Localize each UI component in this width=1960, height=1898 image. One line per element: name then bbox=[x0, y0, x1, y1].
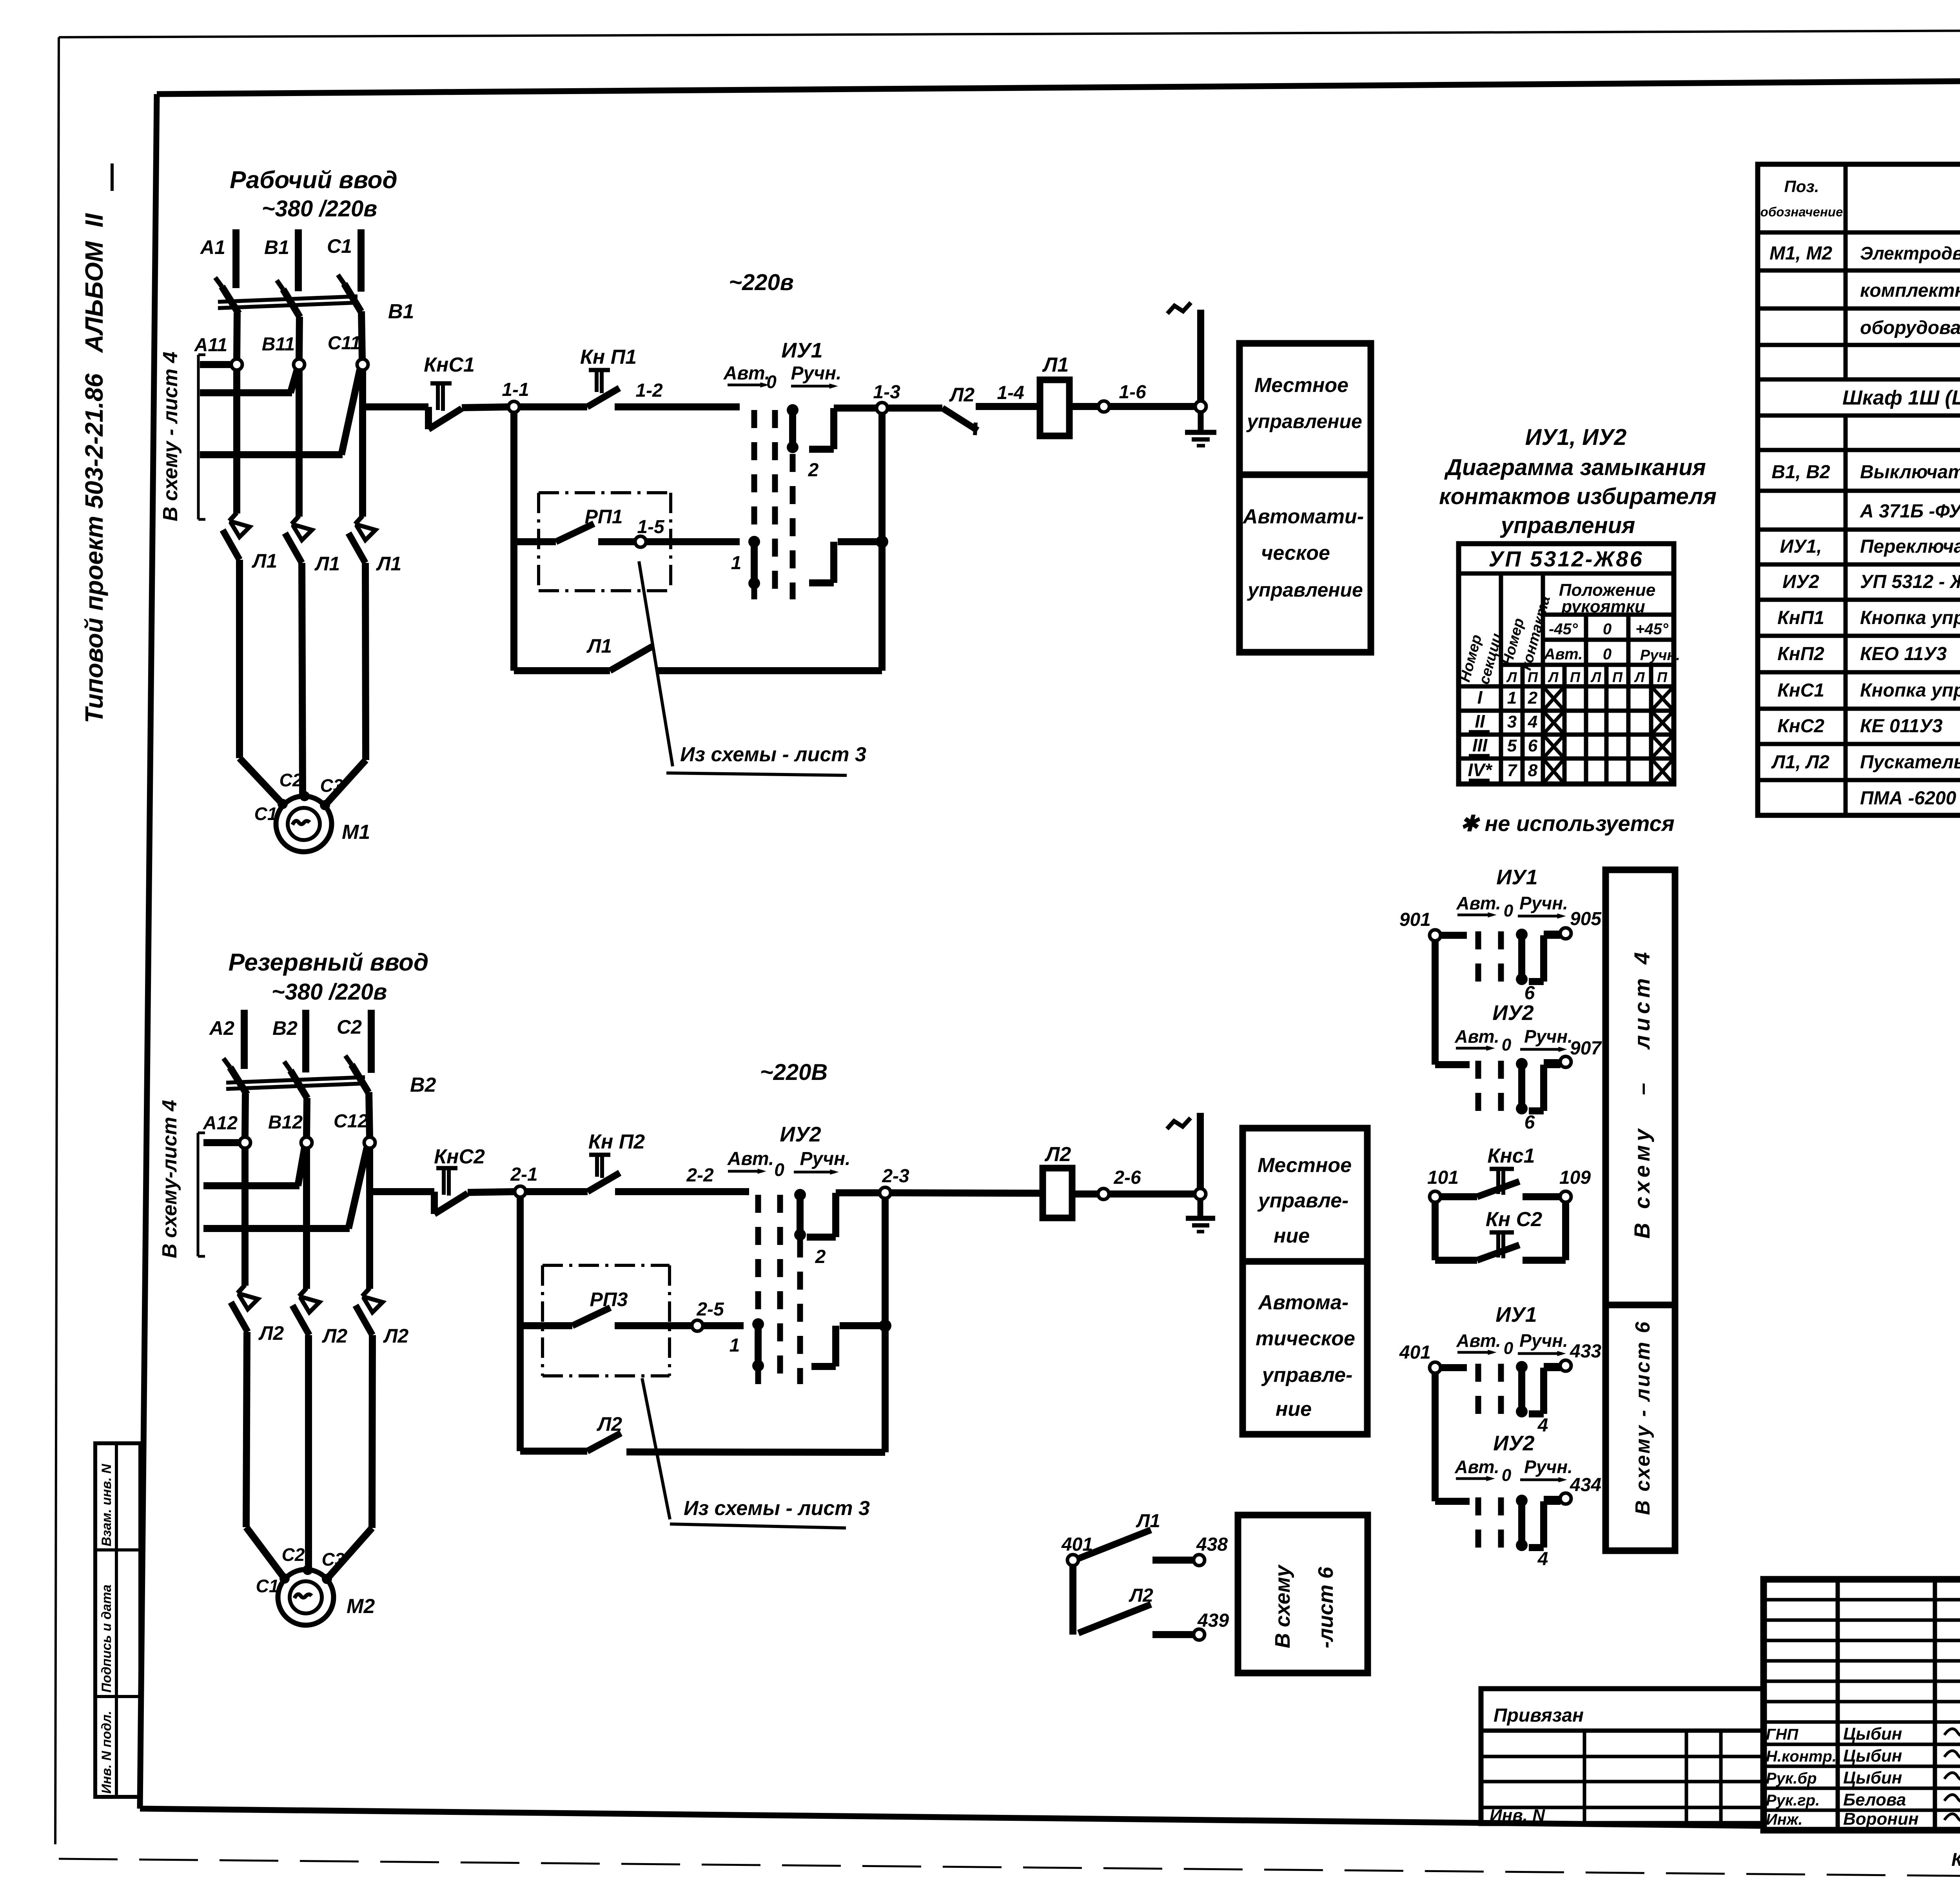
svg-text:901: 901 bbox=[1399, 909, 1431, 930]
svg-text:Инж.: Инж. bbox=[1766, 1811, 1803, 1828]
svg-text:2-2: 2-2 bbox=[686, 1165, 714, 1186]
box: Автоматическое управление (circuit 2) bbox=[1243, 1261, 1367, 1434]
svg-text:Авт.: Авт. bbox=[1544, 646, 1583, 663]
wire C2 phase to КнС2 bbox=[370, 1188, 434, 1195]
svg-text:Местное: Местное bbox=[1254, 374, 1348, 397]
svg-text:I: I bbox=[1477, 687, 1483, 708]
svg-text:В схему: В схему bbox=[1271, 1564, 1294, 1648]
svg-text:~220в: ~220в bbox=[729, 270, 794, 295]
svg-text:2-3: 2-3 bbox=[882, 1166, 909, 1187]
interposing relay contact РП3 with enclosure bbox=[520, 1265, 692, 1376]
svg-text:М2: М2 bbox=[347, 1595, 375, 1618]
svg-text:0: 0 bbox=[1502, 1466, 1512, 1485]
svg-text:В11: В11 bbox=[262, 334, 295, 355]
wire 2-3 to coil bbox=[891, 1193, 1043, 1193]
svg-text:6: 6 bbox=[1524, 1112, 1535, 1133]
svg-text:Типовой проект 503-2-21.86 А: Типовой проект 503-2-21.86 АЛЬБОМ II bbox=[80, 213, 108, 723]
wire 1-2 bbox=[615, 380, 740, 407]
svg-text:1-6: 1-6 bbox=[1119, 382, 1146, 403]
interlock contact Л2 (NC) bbox=[887, 384, 978, 435]
svg-text:Л2: Л2 bbox=[949, 384, 975, 406]
svg-text:А11: А11 bbox=[194, 335, 228, 356]
svg-text:Авт.: Авт. bbox=[727, 1149, 774, 1169]
svg-text:управле-: управле- bbox=[1257, 1189, 1349, 1212]
svg-text:Выключатель автоматический: Выключатель автоматический bbox=[1860, 462, 1960, 483]
svg-text:ческое: ческое bbox=[1261, 542, 1330, 564]
wires to motor M1 bbox=[240, 560, 366, 805]
svg-text:Ручн.: Ручн. bbox=[1524, 1457, 1573, 1477]
svg-text:1: 1 bbox=[1507, 688, 1517, 708]
wire bbox=[519, 403, 587, 410]
selector ИУ2 contact 907 bbox=[1435, 1001, 1602, 1133]
svg-text:Цыбин: Цыбин bbox=[1843, 1768, 1902, 1787]
wire node 1-1 down bbox=[510, 412, 517, 671]
svg-text:В2: В2 bbox=[272, 1017, 298, 1039]
auxiliary contact Л1 (self-hold) bbox=[514, 635, 882, 671]
svg-text:1: 1 bbox=[730, 1335, 740, 1356]
svg-text:КнС2: КнС2 bbox=[1777, 716, 1824, 737]
box: В схему - лист 6 (tall) bbox=[1606, 1305, 1675, 1551]
ground (circuit 2) bbox=[1186, 1199, 1215, 1232]
svg-text:4: 4 bbox=[1537, 1415, 1548, 1436]
wire 401 down bbox=[1069, 1566, 1076, 1635]
tap wires to sheet 4 (reserve) bbox=[198, 1133, 367, 1256]
label: в схему - лист 4 (reserve) bbox=[158, 1100, 181, 1258]
selector switch ИУ2 (contacts 2 and 1) bbox=[727, 1123, 891, 1384]
svg-text:1-5: 1-5 bbox=[637, 517, 665, 537]
start button КнП2 (NO) bbox=[588, 1130, 645, 1192]
node 1-1 bbox=[502, 379, 529, 412]
svg-text:УП 5312-Ж86: УП 5312-Ж86 bbox=[1488, 546, 1643, 571]
svg-text:М1, М2: М1, М2 bbox=[1769, 243, 1832, 264]
footer: Копировал / Формат bbox=[1951, 1848, 1960, 1870]
node B12 bbox=[268, 1112, 312, 1148]
svg-text:Авт.: Авт. bbox=[1454, 1026, 1499, 1047]
node 401 (к листу 6) bbox=[1061, 1534, 1093, 1566]
svg-text:IV*: IV* bbox=[1468, 760, 1492, 780]
svg-text:ИУ2: ИУ2 bbox=[1493, 1432, 1534, 1455]
svg-text:Л1: Л1 bbox=[1136, 1511, 1160, 1531]
svg-text:Авт.: Авт. bbox=[1456, 1330, 1501, 1351]
svg-text:Рабочий ввод: Рабочий ввод bbox=[230, 167, 397, 194]
svg-text:В схему – лист 4: В схему – лист 4 bbox=[1630, 948, 1654, 1239]
svg-text:0: 0 bbox=[1502, 1035, 1512, 1054]
svg-text:7: 7 bbox=[1507, 761, 1518, 780]
svg-text:1-1: 1-1 bbox=[502, 379, 529, 400]
svg-text:Автомати-: Автомати- bbox=[1242, 505, 1364, 528]
svg-text:С3: С3 bbox=[322, 1549, 345, 1570]
svg-text:Взам. инв. N: Взам. инв. N bbox=[99, 1463, 114, 1546]
bus B2 bbox=[272, 1010, 306, 1072]
svg-text:ИУ2: ИУ2 bbox=[780, 1123, 821, 1146]
contactor contact Л2 phase C (reserve) bbox=[356, 1288, 408, 1347]
wire bbox=[526, 1188, 588, 1195]
svg-text:Ручн.: Ручн. bbox=[1524, 1026, 1573, 1047]
svg-text:Л2: Л2 bbox=[597, 1413, 622, 1435]
circuit breaker B1 (3-pole) with trip bar bbox=[215, 275, 414, 323]
svg-text:101: 101 bbox=[1427, 1167, 1459, 1188]
svg-text:Шкаф 1Ш (ШОИ 5901М-4174)-станц: Шкаф 1Ш (ШОИ 5901М-4174)-станция пожарот… bbox=[1842, 386, 1960, 409]
svg-text:ИУ1: ИУ1 bbox=[781, 339, 822, 362]
svg-text:1-3: 1-3 bbox=[873, 382, 900, 403]
node 2-3 bbox=[880, 1166, 909, 1198]
selector ИУ2 contact 434 bbox=[1435, 1432, 1601, 1570]
svg-text:ИУ1, ИУ2: ИУ1, ИУ2 bbox=[1525, 425, 1627, 450]
svg-text:III: III bbox=[1472, 735, 1488, 755]
contact Л1 (401-438) bbox=[1078, 1511, 1160, 1559]
svg-text:1: 1 bbox=[731, 553, 742, 573]
svg-text:А1: А1 bbox=[200, 236, 225, 258]
svg-text:✱ не используется: ✱ не используется bbox=[1460, 811, 1675, 836]
svg-text:Ручн.: Ручн. bbox=[1640, 647, 1680, 664]
node 1-5 bbox=[635, 517, 665, 547]
svg-text:438: 438 bbox=[1196, 1534, 1228, 1555]
wire trunk from node 2-3 bbox=[882, 1198, 889, 1452]
svg-text:2: 2 bbox=[808, 460, 819, 481]
svg-text:КЕ 011У3 ТУ 16 -642: КЕ 011У3 ТУ 16 -642.015-84 bbox=[1860, 716, 1960, 737]
wire + node 439 bbox=[1152, 1610, 1229, 1640]
svg-text:КнП1: КнП1 bbox=[1777, 608, 1824, 628]
node C11 bbox=[328, 333, 368, 370]
svg-text:Кн П1: Кн П1 bbox=[580, 346, 637, 368]
svg-text:5: 5 bbox=[1507, 736, 1517, 755]
svg-text:Поз.: Поз. bbox=[1784, 177, 1819, 196]
selector switch ИУ1 (contacts 2 and 1) bbox=[723, 339, 888, 599]
svg-text:905: 905 bbox=[1570, 909, 1602, 929]
svg-text:Л: Л bbox=[1634, 669, 1645, 685]
svg-text:П: П bbox=[1570, 669, 1581, 685]
wire bbox=[462, 407, 509, 408]
wire trunk from node 1-3 bbox=[878, 414, 886, 671]
svg-text:С1: С1 bbox=[327, 235, 352, 257]
node 2-1 bbox=[510, 1164, 537, 1197]
svg-text:401: 401 bbox=[1399, 1342, 1431, 1363]
svg-text:В12: В12 bbox=[268, 1112, 303, 1133]
stop button КнС1 bbox=[424, 354, 475, 429]
svg-text:В схему - лист 4: В схему - лист 4 bbox=[159, 352, 182, 521]
svg-text:ИУ2: ИУ2 bbox=[1492, 1001, 1534, 1025]
wire 2-2 bbox=[615, 1165, 749, 1192]
wire phase lines down to contactor Л2 bbox=[245, 1148, 370, 1289]
svg-text:439: 439 bbox=[1197, 1610, 1229, 1631]
svg-text:II: II bbox=[1475, 711, 1485, 731]
svg-text:Из схемы - лист 3: Из схемы - лист 3 bbox=[680, 743, 866, 766]
svg-text:2-1: 2-1 bbox=[510, 1164, 537, 1185]
svg-text:А2: А2 bbox=[209, 1017, 234, 1039]
svg-text:В2: В2 bbox=[410, 1074, 436, 1096]
svg-text:П: П bbox=[1612, 669, 1623, 685]
wire bbox=[468, 1192, 515, 1192]
box: В схему - лист 4 (tall) bbox=[1606, 870, 1675, 1305]
box: Местное управление (circuit 1) bbox=[1240, 343, 1371, 475]
bus C1 bbox=[327, 229, 361, 292]
wires to motor M2 bbox=[246, 1332, 372, 1579]
svg-text:Л: Л bbox=[1590, 669, 1602, 685]
motor M2 bbox=[256, 1544, 375, 1625]
svg-text:Ручн.: Ручн. bbox=[791, 363, 841, 384]
svg-text:0: 0 bbox=[774, 1159, 784, 1180]
start button КнП1 (NO) bbox=[580, 346, 637, 407]
wire 901 down bbox=[1432, 941, 1439, 1065]
label: в схему - лист 4 bbox=[159, 352, 182, 521]
wire bbox=[1072, 1190, 1098, 1198]
bus B1 bbox=[264, 229, 298, 291]
svg-text:Копировал: Сухарева: Копировал: Сухарева bbox=[1951, 1849, 1960, 1870]
svg-text:М1: М1 bbox=[342, 821, 370, 844]
svg-text:-лист 6: -лист 6 bbox=[1314, 1566, 1338, 1648]
svg-text:С2: С2 bbox=[337, 1016, 362, 1038]
selector contact table УП 5312-Ж86 bbox=[1457, 544, 1680, 784]
wire bbox=[1069, 403, 1099, 410]
svg-text:Н.контр.: Н.контр. bbox=[1766, 1748, 1837, 1765]
svg-text:Л: Л bbox=[1548, 669, 1559, 685]
svg-text:КнС2: КнС2 bbox=[434, 1145, 485, 1168]
svg-text:ИУ2: ИУ2 bbox=[1782, 572, 1819, 592]
svg-text:4: 4 bbox=[1528, 712, 1537, 731]
svg-text:Л2: Л2 bbox=[1044, 1143, 1071, 1166]
svg-text:-45°: -45° bbox=[1549, 621, 1578, 638]
svg-text:В1: В1 bbox=[264, 236, 289, 258]
contact Л2 (401-439) bbox=[1078, 1585, 1153, 1633]
wire C1 phase to КнС1 bbox=[363, 403, 428, 410]
circuit breaker B2 (3-pole) with trip bar bbox=[223, 1056, 436, 1098]
wire bbox=[646, 538, 740, 545]
svg-text:РП3: РП3 bbox=[590, 1288, 628, 1310]
svg-text:Авт.: Авт. bbox=[1454, 1457, 1499, 1477]
svg-text:управления: управления bbox=[1500, 513, 1635, 538]
svg-text:обозначение: обозначение bbox=[1760, 205, 1843, 219]
svg-text:1-2: 1-2 bbox=[635, 380, 663, 401]
svg-text:Л2: Л2 bbox=[383, 1325, 408, 1347]
svg-text:Кнс1: Кнс1 bbox=[1487, 1145, 1535, 1167]
svg-text:2-6: 2-6 bbox=[1113, 1167, 1141, 1188]
neutral lead N (circuit 1) bbox=[1167, 303, 1206, 412]
svg-text:ПМА -6200 ТУ16 - 526: ПМА -6200 ТУ16 - 526.391-79 bbox=[1860, 788, 1960, 809]
node 1-6 bbox=[1098, 382, 1146, 412]
svg-text:Л2: Л2 bbox=[258, 1322, 284, 1344]
svg-text:ИУ1,: ИУ1, bbox=[1780, 536, 1822, 557]
svg-text:0: 0 bbox=[1504, 1339, 1514, 1358]
svg-text:Кнопка управления: Кнопка управления bbox=[1860, 680, 1960, 701]
svg-text:Местное: Местное bbox=[1258, 1154, 1352, 1177]
svg-text:Кнопка управления: Кнопка управления bbox=[1860, 608, 1960, 628]
svg-text:Инв. N подл.: Инв. N подл. bbox=[99, 1711, 114, 1794]
svg-text:С12: С12 bbox=[334, 1111, 368, 1132]
svg-text:Подпись и дата: Подпись и дата bbox=[99, 1584, 114, 1693]
contactor contact Л1 phase B bbox=[285, 516, 340, 575]
wire to neutral (row 2) bbox=[1109, 1190, 1200, 1198]
svg-text:КнП2: КнП2 bbox=[1777, 644, 1824, 664]
svg-text:Привязан: Привязан bbox=[1494, 1705, 1584, 1726]
parts table rows bbox=[1769, 243, 1960, 809]
lower-left stamp boxes (Взам.инв.N / Подпись и дата / Инв.N подл.) bbox=[95, 1443, 140, 1797]
svg-text:А12: А12 bbox=[203, 1113, 238, 1134]
svg-text:0: 0 bbox=[1603, 621, 1612, 638]
svg-text:ние: ние bbox=[1276, 1398, 1312, 1421]
svg-text:Ручн.: Ручн. bbox=[1519, 1330, 1568, 1351]
bus A1 bbox=[200, 229, 236, 288]
svg-text:Авт.: Авт. bbox=[723, 363, 770, 384]
svg-text:Белова: Белова bbox=[1843, 1790, 1906, 1809]
svg-text:907: 907 bbox=[1570, 1038, 1602, 1059]
wire 1-4 bbox=[976, 383, 1040, 406]
wire + node 438 bbox=[1152, 1534, 1228, 1566]
svg-text:Кн С2: Кн С2 bbox=[1486, 1208, 1542, 1231]
svg-text:комплектно с технологическим: комплектно с технологическим bbox=[1860, 280, 1960, 301]
svg-text:Резервный ввод: Резервный ввод bbox=[229, 949, 429, 976]
svg-text:2-5: 2-5 bbox=[696, 1299, 724, 1320]
svg-text:П: П bbox=[1528, 669, 1538, 685]
svg-text:УП 5312 - ЖВ6 ТУ16 -524.07: УП 5312 - ЖВ6 ТУ16 -524.074-75 bbox=[1860, 572, 1960, 592]
neutral lead N (circuit 2) bbox=[1167, 1113, 1206, 1199]
svg-text:2: 2 bbox=[815, 1247, 826, 1267]
node 1-3 bbox=[873, 382, 900, 414]
contactor contact Л2 phase A (reserve) bbox=[231, 1285, 284, 1344]
stop button КнС2 (row 2) bbox=[434, 1145, 485, 1214]
interposing relay contact РП1 with enclosure bbox=[514, 493, 671, 591]
selector ИУ1 contact 401-433 bbox=[1399, 1303, 1601, 1436]
svg-text:Ручн.: Ручн. bbox=[800, 1149, 850, 1169]
svg-text:В схему-лист 4: В схему-лист 4 bbox=[158, 1100, 181, 1258]
motor M1 bbox=[254, 770, 370, 852]
svg-text:А 371Б -ФУ3 ТУ 16 -522.: А 371Б -ФУ3 ТУ 16 -522.028-74 bbox=[1860, 501, 1960, 522]
stop buttons КнС1 / КнС2 parallel pair (101-109) bbox=[1427, 1145, 1591, 1260]
box: В схему - лист 6 (bottom) bbox=[1238, 1515, 1368, 1673]
diagram title: ИУ1, ИУ2 Диаграмма замыкания контактов избирателя управления bbox=[1439, 425, 1717, 538]
svg-text:Инв. N: Инв. N bbox=[1490, 1806, 1545, 1825]
svg-text:~380 /220в: ~380 /220в bbox=[272, 979, 387, 1005]
callout: Из схемы - лист 3 bbox=[639, 561, 866, 775]
svg-text:П: П bbox=[1657, 669, 1668, 685]
left margin label: Типовой проект 503-2-21.86 АЛЬБОМ II bbox=[80, 163, 112, 723]
svg-text:Пускатель магнитный: Пускатель магнитный bbox=[1860, 752, 1960, 773]
bus A2 bbox=[209, 1010, 244, 1069]
tap wires to sheet 4 bbox=[198, 355, 360, 519]
node 2-5 bbox=[692, 1299, 724, 1331]
svg-text:ИУ1: ИУ1 bbox=[1496, 866, 1537, 889]
binding table (Привязан) bbox=[1481, 1689, 1764, 1825]
svg-text:управле-: управле- bbox=[1261, 1364, 1353, 1386]
svg-text:Л1, Л2: Л1, Л2 bbox=[1771, 752, 1829, 773]
svg-text:Рук.бр: Рук.бр bbox=[1766, 1770, 1817, 1787]
svg-text:Цыбин: Цыбин bbox=[1843, 1746, 1902, 1766]
svg-text:ние: ние bbox=[1274, 1225, 1310, 1247]
wire B2 outputs bbox=[245, 1092, 370, 1138]
wire to neutral bbox=[1109, 403, 1201, 410]
svg-text:Ручн.: Ручн. bbox=[1519, 893, 1568, 913]
svg-text:3: 3 bbox=[1507, 712, 1517, 731]
svg-text:Л1: Л1 bbox=[376, 553, 401, 575]
title block bbox=[1764, 1579, 1960, 1830]
svg-text:Кн П2: Кн П2 bbox=[588, 1130, 645, 1153]
svg-text:Из схемы - лист 3: Из схемы - лист 3 bbox=[684, 1497, 870, 1520]
box: Автоматическое управление (circuit 1) bbox=[1240, 475, 1371, 652]
callout: Из схемы - лист 3 (row 2) bbox=[642, 1378, 870, 1528]
svg-text:С2: С2 bbox=[282, 1544, 305, 1565]
node B11 bbox=[262, 334, 305, 370]
svg-text:оборудованием: оборудованием bbox=[1860, 318, 1960, 338]
svg-text:тическое: тическое bbox=[1256, 1327, 1355, 1350]
svg-text:РП1: РП1 bbox=[584, 506, 622, 528]
svg-text:С1: С1 bbox=[254, 804, 278, 824]
contactor contact Л2 phase B (reserve) bbox=[292, 1288, 347, 1347]
wire phase lines down to contactor L1 bbox=[237, 370, 363, 517]
svg-text:Воронин: Воронин bbox=[1843, 1809, 1918, 1829]
parts table bbox=[1758, 164, 1960, 815]
svg-text:Л1: Л1 bbox=[314, 553, 340, 575]
wire B1 outputs bbox=[237, 311, 362, 359]
wire bbox=[703, 1322, 744, 1329]
box: Местное управление (circuit 2) bbox=[1243, 1128, 1367, 1261]
svg-text:С2: С2 bbox=[279, 770, 303, 790]
title: Резервный ввод ~380/220в bbox=[229, 949, 429, 1005]
svg-text:Л1: Л1 bbox=[252, 550, 277, 572]
svg-text:В1, В2: В1, В2 bbox=[1771, 462, 1830, 483]
ground (circuit 1) bbox=[1185, 412, 1216, 446]
selector ИУ1 contact 901-905 bbox=[1399, 866, 1602, 1003]
auxiliary contact Л2 (self-hold) bbox=[520, 1413, 885, 1452]
svg-text:С3: С3 bbox=[320, 775, 343, 796]
contactor coil Л1 bbox=[1040, 354, 1069, 436]
svg-text:С11: С11 bbox=[328, 333, 361, 354]
node 2-6 bbox=[1098, 1167, 1141, 1199]
svg-text:контактов избирателя: контактов избирателя bbox=[1439, 484, 1717, 509]
svg-text:В1: В1 bbox=[388, 300, 414, 323]
contactor contact Л1 phase C bbox=[348, 516, 401, 575]
svg-text:рукоятки: рукоятки bbox=[1561, 597, 1645, 616]
svg-text:6: 6 bbox=[1524, 983, 1535, 1003]
svg-text:Рук.гр.: Рук.гр. bbox=[1766, 1792, 1820, 1809]
svg-text:+45°: +45° bbox=[1635, 621, 1669, 638]
svg-text:Диаграмма замыкания: Диаграмма замыкания bbox=[1444, 455, 1706, 480]
contactor coil Л2 bbox=[1043, 1143, 1072, 1218]
svg-text:Переключатель универсальный: Переключатель универсальный bbox=[1860, 536, 1960, 557]
svg-text:434: 434 bbox=[1570, 1475, 1601, 1495]
svg-text:2: 2 bbox=[1528, 688, 1538, 708]
svg-text:Л1: Л1 bbox=[586, 635, 612, 657]
svg-text:1-4: 1-4 bbox=[997, 383, 1024, 403]
svg-text:~220В: ~220В bbox=[760, 1060, 828, 1085]
svg-text:Автома-: Автома- bbox=[1258, 1291, 1348, 1314]
svg-text:Л1: Л1 bbox=[1042, 354, 1069, 376]
svg-text:6: 6 bbox=[1528, 736, 1538, 755]
title: Рабочий ввод ~380/220в bbox=[230, 167, 397, 221]
svg-text:С1: С1 bbox=[256, 1576, 279, 1596]
svg-text:ГНП: ГНП bbox=[1766, 1726, 1798, 1743]
svg-text:Авт.: Авт. bbox=[1456, 893, 1501, 913]
svg-text:Цыбин: Цыбин bbox=[1843, 1724, 1902, 1744]
node A12 bbox=[203, 1113, 250, 1148]
svg-text:8: 8 bbox=[1528, 761, 1538, 780]
svg-text:управление: управление bbox=[1246, 410, 1362, 432]
svg-text:Л: Л bbox=[1506, 669, 1517, 685]
svg-text:0: 0 bbox=[1603, 646, 1612, 663]
svg-text:КнС1: КнС1 bbox=[424, 354, 475, 376]
contactor contact Л1 phase A bbox=[223, 513, 277, 572]
title block signatures bbox=[1766, 1724, 1960, 1829]
svg-text:управление: управление bbox=[1247, 579, 1363, 601]
svg-text:~380 /220в: ~380 /220в bbox=[262, 196, 377, 221]
wire 401 down bbox=[1432, 1373, 1439, 1501]
wire node 2-1 down bbox=[517, 1197, 524, 1451]
svg-text:0: 0 bbox=[1504, 901, 1514, 920]
node C12 bbox=[334, 1111, 375, 1148]
svg-text:4: 4 bbox=[1537, 1549, 1548, 1570]
svg-text:КЕО 11У3 ТУ 16 -642: КЕО 11У3 ТУ 16 -642.015-84 bbox=[1860, 644, 1960, 664]
svg-text:ИУ1: ИУ1 bbox=[1495, 1303, 1537, 1326]
svg-text:0: 0 bbox=[766, 372, 777, 392]
svg-text:109: 109 bbox=[1559, 1167, 1591, 1188]
